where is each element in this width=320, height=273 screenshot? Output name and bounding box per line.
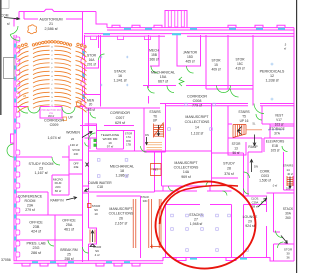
door manuscript 26 (83, 247, 89, 253)
label room MANUSCRIPT COLLECTIONS 14 (185, 115, 210, 136)
label room AUDITORIUM 21 (39, 18, 62, 32)
svg-text:C007: C007 (116, 116, 125, 120)
svg-text:419 sf: 419 sf (236, 67, 245, 71)
svg-text:29: 29 (248, 220, 252, 224)
seat rows left section (18, 47, 29, 113)
svg-text:sf: sf (7, 22, 10, 26)
room MECH15B walls (150, 35, 159, 66)
label room JANITOR 15D (183, 51, 198, 64)
label room STOR 15C (235, 58, 245, 71)
svg-text:23F: 23F (74, 152, 79, 156)
svg-text:STACK: STACK (283, 207, 294, 211)
svg-text:COLLECTIONS: COLLECTIONS (109, 212, 134, 216)
svg-text:17A: 17A (126, 135, 131, 139)
label room OFFICE 23B (29, 221, 43, 234)
shelving connector (150, 245, 162, 249)
svg-text:BREAK RM: BREAK RM (60, 248, 77, 252)
svg-text:23E: 23E (74, 165, 79, 169)
svg-text:MANUSCRIPT: MANUSCRIPT (109, 207, 133, 211)
label room STUDY ROOM 23 (29, 162, 54, 175)
svg-text:PROJECTION RM: PROJECTION RM (41, 110, 60, 112)
label note RAMP (248, 145, 257, 149)
svg-text:130 sf: 130 sf (70, 143, 78, 147)
label room MANUSCRIPT COLLECTIONS 14A (174, 161, 199, 179)
svg-text:MECHANICAL: MECHANICAL (151, 71, 175, 75)
svg-text:UP: UP (153, 119, 157, 123)
label room WOMEN number (70, 137, 78, 147)
label note DUMB WAITER C18 (88, 181, 112, 189)
svg-text:23: 23 (39, 167, 43, 171)
door corridor c008 stairs end (148, 86, 155, 93)
svg-text:G: G (51, 72, 53, 74)
wall auditorium top (19, 9, 96, 11)
label corridor C009 area (47, 136, 61, 140)
svg-text:258 sf: 258 sf (65, 257, 74, 261)
corridor C003 area walls (248, 106, 294, 153)
svg-text:OFF: OFF (73, 162, 79, 166)
svg-text:56 sf: 56 sf (233, 151, 240, 155)
red pet box (151, 164, 162, 176)
svg-text:STAIRS: STAIRS (238, 110, 249, 114)
stairs T6 arrow (157, 125, 159, 136)
corr c003 up arrow (250, 160, 253, 173)
label room STACKS 27 (189, 213, 203, 226)
svg-text:C29A: C29A (252, 201, 259, 205)
svg-text:10: 10 (94, 212, 98, 216)
label room STOR 17A (125, 132, 132, 140)
door storage 37A (282, 146, 288, 152)
svg-text:STORAGE: STORAGE (269, 127, 285, 131)
svg-text:2,167 sf: 2,167 sf (115, 222, 127, 226)
label stairs T5 (238, 110, 249, 123)
svg-text:VEST: VEST (275, 114, 283, 118)
svg-text:CLOS.: CLOS. (251, 197, 259, 201)
svg-text:279 sf: 279 sf (25, 208, 35, 212)
label note SL (253, 122, 256, 126)
red markup ellipse (153, 179, 257, 271)
svg-text:26: 26 (119, 217, 123, 221)
svg-text:779 sf: 779 sf (192, 104, 203, 108)
svg-text:376 sf: 376 sf (224, 172, 234, 176)
label room STORAGE 37A (269, 127, 285, 136)
manuscript 14A room walls (162, 151, 212, 186)
door dw area (141, 146, 147, 152)
stairs T6 treads (154, 124, 164, 138)
svg-text:30A: 30A (285, 212, 292, 216)
room JANITOR walls (177, 35, 201, 66)
svg-text:33D: 33D (143, 199, 148, 203)
svg-text:1,132 sf: 1,132 sf (191, 132, 203, 136)
svg-text:97 sf: 97 sf (107, 145, 114, 149)
label room MANUSCRIPT COLLECTIONS 26 (109, 207, 134, 226)
stair S9 top marker (88, 204, 92, 208)
svg-text:18: 18 (120, 169, 124, 173)
study room 23 walls (16, 146, 70, 196)
door auditorium northwest entry (10, 26, 19, 40)
svg-text:STACK: STACK (141, 195, 150, 199)
skylight comb structure (165, 11, 187, 28)
svg-text:15D: 15D (187, 55, 194, 59)
svg-text:MANUSCRIPT: MANUSCRIPT (174, 161, 198, 165)
label room OFFICE 25A (62, 219, 76, 232)
door auditorium south-left (28, 107, 40, 113)
door pres lab (48, 240, 54, 246)
door stor15c (231, 89, 239, 97)
label room MICRO FILM 23C (53, 178, 64, 194)
door corridor c009 (18, 107, 28, 114)
svg-text:M: M (51, 93, 53, 95)
svg-text:ROOM: ROOM (25, 199, 36, 203)
svg-text:4 sf: 4 sf (95, 253, 100, 257)
stairs S14 treads (287, 176, 293, 186)
label room VEST V17 (275, 114, 284, 127)
svg-text:260: 260 (285, 216, 291, 220)
label room MECH 15B (149, 49, 159, 62)
svg-text:28: 28 (227, 167, 231, 171)
label corridor C008 (187, 94, 207, 107)
door stack 30a (276, 231, 283, 238)
label note RAMP IN (50, 199, 64, 203)
svg-text:15B: 15B (151, 53, 158, 57)
svg-text:OFFICE: OFFICE (62, 219, 76, 223)
svg-text:14A: 14A (183, 170, 190, 174)
orange cloud lobby (28, 25, 37, 34)
svg-text:37A: 37A (274, 132, 281, 136)
telephone room walls (97, 131, 124, 150)
window left wall series (14, 44, 16, 252)
door tick corridor 14a (169, 186, 228, 195)
window stack16 top (103, 33, 181, 35)
wall auditorium top step (96, 12, 107, 28)
svg-text:1,674 sf: 1,674 sf (47, 136, 61, 140)
svg-text:20: 20 (89, 103, 93, 107)
svg-text:629 sf: 629 sf (115, 121, 126, 125)
svg-text:DN: DN (286, 187, 290, 191)
pilaster bumps below top wall (91, 36, 97, 39)
blue dot periodicals (271, 63, 273, 65)
svg-text:12: 12 (270, 74, 274, 78)
svg-text:23G: 23G (33, 246, 40, 250)
label room TELEPHONE (101, 133, 119, 149)
pilasters left wall (16, 37, 20, 257)
seat rows center section (33, 46, 71, 108)
svg-text:C009: C009 (50, 123, 59, 127)
entrance alcove left wall (11, 134, 14, 143)
vest v17 walls (270, 124, 294, 138)
orange up marker (63, 117, 67, 121)
door left wall entrance double (7, 144, 14, 157)
stairs T5 box walls (228, 106, 262, 139)
stacks 27 room walls (166, 205, 232, 258)
label room STOR 15 (211, 59, 221, 72)
label note COM (1, 14, 9, 18)
svg-text:195 sf: 195 sf (86, 108, 95, 112)
svg-text:CORR.: CORR. (260, 170, 271, 174)
svg-text:465 sf: 465 sf (186, 60, 195, 64)
corridor cross mark (86, 163, 89, 167)
svg-text:PERIODICALS: PERIODICALS (260, 70, 285, 74)
svg-text:CORRIDOR: CORRIDOR (110, 111, 130, 115)
wall main top outer (107, 28, 294, 30)
svg-text:1,530 sf: 1,530 sf (259, 179, 271, 183)
svg-text:RAMP IN: RAMP IN (50, 199, 64, 203)
mechanical 18 room walls (89, 151, 212, 192)
svg-text:183 sf: 183 sf (48, 116, 55, 118)
seat rows right section (76, 47, 87, 113)
pilaster bottom wall bumps (22, 264, 140, 267)
svg-text:66 sf: 66 sf (55, 189, 62, 193)
svg-text:STAIRS: STAIRS (149, 110, 160, 114)
fixture squares women closet (94, 139, 97, 142)
svg-text:23B: 23B (33, 225, 40, 229)
room STOR 16A walls (85, 35, 99, 68)
svg-text:1,386 sf: 1,386 sf (115, 174, 129, 178)
ramp in arrow (66, 197, 77, 200)
svg-text:409 sf: 409 sf (212, 68, 221, 72)
gray legend box left edge (4, 58, 15, 79)
label room STOR 30 (284, 248, 293, 260)
stairs T6 DN arrow (145, 137, 147, 145)
door manuscript 14a (206, 181, 211, 186)
svg-text:STOR: STOR (72, 148, 79, 152)
stair S9 shaft arrow (91, 231, 94, 243)
svg-text:15A: 15A (160, 75, 167, 79)
shelving range lines stacks (133, 199, 161, 248)
pilaster bottom right bumps (176, 258, 236, 261)
rooms STOR15 STOR15C walls (206, 35, 253, 89)
dumb waiter shaft (83, 186, 89, 193)
wall periodicals left (252, 35, 254, 106)
wall auditorium bottom (14, 106, 85, 108)
label note DN (254, 164, 258, 168)
stair S9 bottom marker (90, 244, 95, 247)
label note edge sf (284, 47, 286, 51)
svg-text:WOMEN: WOMEN (66, 131, 80, 135)
door men room (90, 112, 96, 118)
svg-text:37056: 37056 (1, 258, 11, 262)
label sheet number 37056 (1, 258, 11, 262)
study 28 room walls (212, 153, 244, 178)
door study room 23 (52, 157, 60, 165)
label room STACK 30A (283, 207, 294, 220)
svg-text:STOR: STOR (232, 142, 241, 146)
svg-text:PRES. LAB: PRES. LAB (26, 241, 46, 245)
label room STACK 16 (113, 70, 127, 83)
svg-text:201 sf: 201 sf (87, 63, 96, 67)
label room ELEVATORS E1B (266, 140, 285, 153)
pilaster top wall bumps (112, 25, 285, 27)
label room PET (153, 168, 158, 172)
svg-text:1,341 sf: 1,341 sf (113, 79, 127, 83)
label room LOUNGE 29 (243, 215, 258, 228)
svg-text:105 sf: 105 sf (271, 149, 280, 153)
svg-text:1,948 sf: 1,948 sf (190, 222, 202, 226)
svg-text:UP 16: UP 16 (240, 119, 249, 123)
label room 23E (73, 162, 79, 170)
pilasters auditorium right wall (81, 44, 85, 106)
sheet edge black line (296, 0, 298, 273)
wall left exterior double (14, 12, 19, 261)
label stairs 14 (283, 164, 294, 173)
left corridor C001 walls (83, 107, 89, 262)
svg-text:E1B: E1B (272, 144, 278, 148)
corridor C008 top wall (143, 85, 253, 87)
dashed blue line storage (268, 129, 284, 131)
svg-text:1,167 sf: 1,167 sf (34, 171, 48, 175)
svg-text:424 sf: 424 sf (31, 230, 42, 234)
label stairs T6 (145, 110, 161, 137)
svg-text:CORRIDOR: CORRIDOR (44, 119, 64, 123)
label room STUDY 28 (223, 162, 236, 177)
stairs T5 rail line (246, 129, 262, 131)
svg-text:461 sf: 461 sf (64, 228, 75, 232)
svg-text:C18: C18 (97, 185, 103, 189)
elevators room walls (264, 138, 294, 152)
women room walls (85, 124, 97, 149)
svg-text:COLLECTIONS: COLLECTIONS (174, 166, 199, 170)
dumb waiter arrow (84, 189, 89, 192)
svg-text:1,338 sf: 1,338 sf (265, 79, 279, 83)
label room STACK 33D (141, 195, 150, 203)
label stair S9 upper (92, 204, 101, 216)
svg-text:13: 13 (234, 147, 238, 151)
svg-text:CORRIDOR: CORRIDOR (187, 94, 207, 98)
svg-text:40 sf: 40 sf (287, 172, 293, 176)
clos walls (244, 196, 267, 212)
svg-text:OFFICE: OFFICE (29, 221, 43, 225)
label corridor C009 (44, 119, 64, 128)
seat back row scallops (32, 44, 34, 46)
door clos west (244, 189, 250, 195)
svg-text:16: 16 (118, 74, 122, 78)
stairs T5 treads (233, 125, 246, 138)
svg-text:667 sf: 667 sf (158, 80, 169, 84)
svg-text:DN: DN (254, 164, 258, 168)
wall stack16 left (100, 35, 102, 107)
svg-text:58 sf: 58 sf (252, 205, 258, 209)
stairs T6 lower flight (147, 142, 163, 150)
label room MECHANICAL 15A (151, 71, 175, 84)
stair S9 shaft red rail (90, 230, 95, 243)
door janitor (187, 66, 194, 73)
stor17 dw17 walls (124, 131, 135, 152)
column markers grid (185, 103, 188, 106)
svg-text:MECH: MECH (149, 49, 159, 53)
svg-text:STOR: STOR (235, 58, 245, 62)
label room MEN 20 (86, 99, 95, 113)
svg-text:25A: 25A (66, 223, 73, 227)
svg-text:2,586 sf: 2,586 sf (44, 27, 58, 31)
svg-text:STACKS: STACKS (189, 213, 203, 217)
label room PRES LAB 23G (26, 241, 46, 255)
stair S9 shaft walls (89, 228, 97, 244)
door stor 30 (278, 242, 284, 248)
blue cross markers stack16 (100, 56, 128, 86)
svg-text:C003: C003 (261, 174, 269, 178)
door stairs T5 (256, 114, 262, 120)
svg-text:17B: 17B (126, 143, 131, 147)
svg-text:23A: 23A (27, 204, 34, 208)
svg-text:C008: C008 (193, 99, 202, 103)
label note DN stairs14 (286, 187, 290, 191)
svg-text:STAIRS: STAIRS (283, 164, 294, 168)
label room STOR 13 (232, 142, 241, 155)
label room CLOS (251, 197, 259, 209)
stack30a arrow (281, 236, 287, 244)
door corridor c008 east double (217, 86, 231, 93)
svg-text:MECHANICAL: MECHANICAL (110, 165, 134, 169)
wall auditorium lobby inner (24, 12, 83, 20)
stor 30 room walls (274, 244, 295, 261)
svg-text:STUDY ROOM: STUDY ROOM (29, 162, 54, 166)
label room MECHANICAL 18 (110, 165, 134, 178)
door stor16a (99, 54, 105, 60)
window bottom wall series (32, 261, 130, 263)
orange loop seat count (76, 101, 81, 106)
corr C003 vertical walls (244, 152, 249, 196)
corridor C007 walls (80, 108, 160, 126)
svg-text:DN: DN (145, 133, 149, 137)
small rooms 23F 23E walls (69, 160, 83, 174)
label stair S9 lower (93, 245, 102, 257)
door study 28 (244, 172, 250, 178)
label room BREAK RM 25 (60, 248, 77, 261)
svg-text:J: J (51, 80, 52, 82)
svg-text:ELEVATORS: ELEVATORS (266, 140, 285, 144)
stairs T6 red diagonal (154, 123, 164, 137)
label room 23F (72, 148, 79, 156)
svg-text:15: 15 (214, 63, 218, 67)
svg-text:COLLECTIONS: COLLECTIONS (185, 120, 210, 124)
svg-text:27: 27 (194, 217, 198, 221)
stairs S14 arrow (289, 177, 291, 189)
gray corner lines top left (0, 0, 9, 9)
door women room (85, 133, 96, 146)
wall bottom left (14, 261, 164, 264)
com label arrow (4, 17, 20, 20)
window auditorium right wall (83, 51, 85, 99)
svg-text:STOR: STOR (125, 132, 132, 136)
svg-text:15C: 15C (237, 62, 244, 66)
svg-text:16A: 16A (89, 58, 96, 62)
wall bottom right stacks (163, 258, 232, 262)
label note 0sf (272, 184, 277, 188)
svg-text:STOR: STOR (211, 59, 221, 63)
projection room (40, 107, 62, 119)
blue dot periodicals lower (271, 98, 273, 100)
svg-text:sf: sf (284, 47, 286, 51)
white center aisle (50, 45, 55, 107)
svg-text:STACK: STACK (114, 70, 127, 74)
lounge walls (244, 205, 267, 258)
label room CONFERENCE 23A (18, 195, 43, 213)
svg-text:AUDITORIUM: AUDITORIUM (39, 18, 62, 22)
svg-text:103 sf: 103 sf (275, 123, 284, 127)
svg-text:V17: V17 (276, 118, 282, 122)
svg-text:.0 sf: .0 sf (272, 184, 277, 188)
door periodicals (254, 104, 264, 114)
room MEN 20 walls (85, 94, 101, 96)
svg-text:COM: COM (1, 14, 9, 18)
door clos east (261, 197, 267, 203)
window top wall series (124, 28, 285, 30)
svg-text:PET: PET (153, 168, 158, 172)
svg-text:36: 36 (286, 256, 290, 260)
wall right exterior (293, 28, 295, 261)
wall main top inner band (84, 34, 294, 37)
svg-text:924 sf: 924 sf (245, 224, 255, 228)
door mech15b (151, 66, 158, 73)
